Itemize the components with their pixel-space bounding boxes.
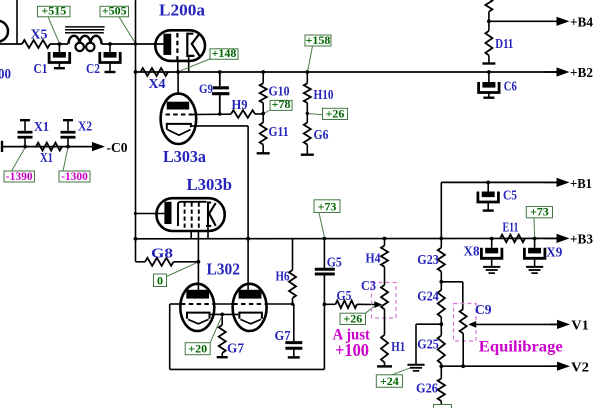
label H10 — [314, 87, 334, 102]
svg-text:H4: H4 — [366, 251, 381, 266]
label +100 — [335, 340, 369, 360]
terminal G11 bottom — [257, 152, 270, 154]
voltage label +73 right — [526, 205, 552, 237]
label X9 — [546, 245, 562, 260]
wire L303a cathode to right column — [191, 126, 248, 239]
svg-text:X5: X5 — [31, 27, 48, 42]
node C5 top — [486, 181, 490, 185]
wire to L302 left anode — [197, 262, 199, 290]
label L200a — [159, 1, 206, 20]
label L302 — [207, 260, 241, 279]
wire resistor to B4 node — [488, 12, 490, 22]
label X2 cap — [78, 119, 92, 134]
capacitor X2 — [61, 120, 76, 146]
wire L303b lead through to G8 node — [197, 231, 199, 262]
wire grid gap between tubes — [214, 303, 234, 305]
arrow output -C0 — [92, 142, 105, 151]
tube L302a grid (dashed) — [181, 303, 214, 305]
svg-text:+24: +24 — [380, 374, 399, 388]
node +26 junction — [306, 103, 309, 123]
wire H4 to C3 — [384, 267, 386, 285]
node G5 resistor junction — [323, 302, 327, 306]
tube L302a envelope — [180, 284, 214, 331]
svg-text:Equilibrage: Equilibrage — [479, 339, 563, 356]
wiper arrow into C3 — [357, 301, 382, 308]
node X8 top — [490, 237, 494, 241]
wire H6 to grid node — [292, 298, 294, 304]
tube L302b cathode — [239, 313, 262, 319]
svg-text:X2: X2 — [78, 119, 92, 134]
label G24 — [417, 289, 439, 304]
svg-text:H9: H9 — [232, 97, 248, 112]
voltage label 0 — [154, 263, 197, 288]
svg-text:G11: G11 — [269, 124, 289, 139]
label X8 — [464, 244, 480, 259]
resistor G25 — [438, 335, 445, 363]
tube L302a anode plate — [186, 290, 209, 299]
wire input to X5 at y=44 — [0, 43, 22, 45]
svg-text:+78: +78 — [272, 97, 291, 111]
tube L303b screen — [178, 202, 207, 226]
svg-text:G6: G6 — [314, 127, 329, 142]
svg-text:X8: X8 — [464, 244, 480, 259]
wire G8 to node — [174, 261, 199, 263]
tube L303b cathode plate — [164, 202, 171, 224]
arrow output V2 — [550, 362, 570, 371]
resistor G11 — [260, 123, 267, 145]
terminal input C0 line — [1, 141, 3, 152]
svg-text:G5: G5 — [327, 255, 342, 270]
label L300 partial — [0, 67, 11, 83]
node +515 junction — [58, 42, 62, 46]
svg-text:+B2: +B2 — [570, 66, 593, 81]
label G6 — [314, 127, 329, 142]
wire B3 rail — [136, 237, 558, 239]
ground below X8 — [483, 267, 500, 273]
wire C9 feed — [441, 282, 463, 309]
svg-text:C1: C1 — [34, 61, 48, 76]
resistor E11 — [500, 235, 525, 243]
svg-text:G7: G7 — [227, 341, 244, 356]
svg-text:+B4: +B4 — [570, 16, 593, 31]
wire C3 to H1 — [384, 309, 386, 335]
label G9 — [199, 81, 213, 96]
wire L200a to L303a anode — [177, 72, 179, 95]
terminal H1 bottom — [377, 365, 392, 367]
svg-text:L302: L302 — [207, 260, 241, 279]
resistor G8 — [145, 258, 174, 266]
svg-text:H10: H10 — [314, 87, 334, 102]
svg-text:G5: G5 — [337, 288, 352, 303]
node V2 junction — [439, 364, 443, 368]
capacitor C1 — [49, 44, 70, 68]
resistor H4 — [381, 239, 388, 267]
capacitor C2 — [100, 44, 120, 72]
label C9 — [475, 302, 492, 317]
svg-text:C3: C3 — [361, 278, 376, 293]
node B3 riser junction — [439, 237, 443, 241]
wire G23 to G24 — [440, 272, 442, 291]
tube L303a filament — [168, 130, 191, 136]
inductor core lines — [65, 27, 105, 33]
label V2 — [571, 361, 589, 376]
voltage label +26 — [309, 106, 348, 120]
node +158 junction — [305, 70, 309, 74]
resistor G7 — [219, 314, 226, 353]
label D11 — [495, 36, 513, 51]
node +505 junction — [108, 42, 137, 46]
resistor H1 — [381, 335, 388, 363]
wire cathode link — [210, 313, 240, 315]
label H4 — [366, 251, 381, 266]
svg-text:C5: C5 — [503, 188, 517, 203]
wire H1 to terminal — [384, 362, 386, 366]
tube L303b anode — [206, 203, 216, 226]
voltage label +73 left — [314, 199, 340, 236]
resistor top right (partial) — [485, 0, 492, 12]
wire L303a grid to H9 — [193, 113, 231, 115]
node B4 — [487, 19, 491, 23]
wire G8 corner — [136, 261, 146, 263]
svg-text:-1390: -1390 — [6, 171, 33, 183]
capacitor G5 — [315, 239, 335, 305]
svg-text:H6: H6 — [276, 269, 290, 284]
resistor H9 — [231, 110, 255, 118]
wire L303b lead to B3 rail a — [190, 231, 192, 239]
resistor G10 — [260, 72, 267, 103]
wire G7 to terminal — [221, 353, 223, 357]
label +B3 — [570, 233, 593, 248]
node X4 left — [134, 70, 138, 74]
svg-text:+515: +515 — [41, 4, 66, 18]
label Equilibrage — [479, 339, 563, 356]
voltage label +148 — [181, 46, 239, 71]
node C9 feed junction — [439, 280, 443, 284]
voltage label +26 adjust — [340, 306, 375, 326]
svg-text:+505: +505 — [102, 4, 127, 18]
label H6 — [276, 269, 290, 284]
tube L302a filament — [188, 319, 209, 323]
node grid H6 junction — [291, 302, 294, 305]
svg-text:+148: +148 — [212, 46, 237, 60]
wire L200a anode lead down — [188, 56, 190, 72]
tube L303b envelope — [157, 198, 225, 231]
voltage label +515 — [38, 4, 71, 43]
node +78 junction — [261, 103, 265, 123]
node X1 — [23, 145, 27, 149]
svg-text:G26: G26 — [416, 381, 438, 396]
wire D11 to terminal — [488, 55, 490, 63]
wire C0 rail — [2, 146, 93, 148]
ground below X9 — [526, 267, 543, 273]
capacitor C5 — [478, 182, 499, 210]
resistor H10 — [304, 72, 311, 103]
wire vertical bus x=135.5 from top edge to G8 corner — [135, 0, 137, 262]
svg-text:X4: X4 — [149, 76, 166, 91]
svg-text:00: 00 — [0, 67, 11, 83]
node G9 bottom — [218, 112, 221, 115]
label V1 — [571, 319, 589, 334]
arrow output +B2 — [545, 67, 570, 76]
capacitor X1 — [18, 120, 33, 146]
resistor G24 — [438, 290, 445, 317]
svg-text:+26: +26 — [343, 311, 362, 325]
voltage label +505 — [100, 4, 135, 43]
arrow output +B3 — [545, 234, 570, 243]
svg-text:+B3: +B3 — [570, 233, 593, 248]
svg-text:X1: X1 — [40, 150, 53, 165]
svg-text:V2: V2 — [571, 361, 589, 376]
terminal D11 bottom — [482, 62, 495, 64]
wire grid node down to G7 cap — [293, 304, 295, 341]
voltage label bottom (partial) — [434, 405, 452, 411]
resistor X4 — [141, 68, 168, 76]
label X1 cap — [34, 119, 49, 134]
node C9 V2 junction — [461, 364, 465, 368]
label G26 — [416, 381, 438, 396]
label L303b — [187, 175, 233, 194]
tube L200a anode — [187, 34, 199, 56]
svg-text:+73: +73 — [318, 199, 337, 213]
terminal G6 bottom — [301, 153, 314, 155]
node G10 top — [261, 70, 265, 74]
label X5 — [31, 27, 48, 42]
svg-text:+100: +100 — [335, 340, 369, 360]
svg-text:G8: G8 — [151, 246, 173, 261]
inductor L1 coil — [69, 36, 102, 51]
dashed box C3 — [372, 283, 397, 319]
label L303a — [163, 147, 206, 166]
label X4 — [149, 76, 166, 91]
label E11 — [503, 220, 519, 235]
label G8 — [151, 246, 173, 261]
svg-text:C2: C2 — [86, 61, 100, 76]
svg-text:L303b: L303b — [187, 175, 233, 194]
tube L303a cathode — [167, 124, 191, 130]
tube L302b grid (dashed) — [233, 303, 266, 305]
node X9 top / +73 junction — [533, 237, 537, 241]
label G7 cap — [275, 328, 291, 343]
resistor G26 — [438, 379, 445, 402]
node G9 top — [218, 70, 222, 74]
svg-text:L303a: L303a — [163, 147, 206, 166]
svg-text:G23: G23 — [417, 252, 439, 267]
label G5 res — [337, 288, 352, 303]
label C1 — [34, 61, 48, 76]
resistor G6 — [304, 123, 311, 145]
dashed box C9 — [454, 304, 477, 342]
wire ground tap — [416, 324, 441, 364]
svg-text:G24: G24 — [417, 289, 439, 304]
node cathode G7 — [220, 313, 224, 317]
resistor G23 — [438, 248, 445, 272]
wiper arrow from C9 — [468, 321, 557, 328]
label C2 — [86, 61, 100, 76]
wire loop bottom — [170, 368, 325, 370]
tube L200a cathode plate — [163, 34, 171, 55]
label C5 — [503, 188, 517, 203]
terminal G7 cap bottom — [288, 356, 300, 358]
wire loop right vertical to G5 node — [323, 304, 325, 369]
svg-text:D11: D11 — [495, 36, 513, 51]
tube L200a grid (dashed) — [176, 33, 178, 62]
wire C9 bottom — [462, 334, 464, 367]
node G8 / 0V — [197, 260, 201, 264]
voltage label +20 — [185, 318, 221, 356]
wire to L302 right anode — [247, 239, 249, 290]
resistor G5 — [324, 301, 357, 309]
tube L303a anode plate — [167, 102, 190, 110]
label +B1 — [570, 177, 592, 192]
svg-text:E11: E11 — [503, 220, 519, 235]
node B3 left junction — [134, 237, 138, 241]
voltage label +24 — [376, 367, 413, 388]
svg-text:+158: +158 — [306, 33, 331, 47]
capacitor X8 — [481, 239, 502, 267]
capacitor G7 — [285, 343, 302, 358]
label +B4 — [570, 16, 593, 31]
wire G24 to G25 — [440, 317, 442, 335]
resistor X1 — [36, 143, 62, 151]
label G25 — [417, 337, 439, 352]
resistor D11 — [485, 21, 492, 55]
svg-text:G9: G9 — [199, 81, 213, 96]
label G5 cap — [327, 255, 342, 270]
wire V2 rail — [441, 365, 557, 367]
node anode junction +148 — [176, 70, 180, 74]
node C6 top — [487, 70, 491, 74]
wire grid loop left — [170, 303, 181, 305]
tube L303a grid (dashed) — [166, 114, 194, 116]
label H9 — [232, 97, 248, 112]
arrow output +B1 — [545, 178, 570, 187]
wire L200a grid lead down — [177, 62, 179, 73]
voltage label -1390 — [4, 149, 35, 183]
label G23 — [417, 252, 439, 267]
tube L302a cathode — [187, 313, 210, 319]
tube L300 (partial, clipped at left edge) — [0, 21, 8, 42]
svg-text:H1: H1 — [391, 339, 405, 354]
node cathode rail junction — [246, 237, 250, 241]
wire L303b anode lead to B3 rail — [207, 226, 209, 239]
tube L302b envelope — [233, 284, 267, 331]
node ground tap junction — [439, 322, 443, 326]
label C6 — [504, 79, 517, 94]
svg-text:-1300: -1300 — [61, 171, 88, 183]
label +B2 — [570, 66, 593, 81]
svg-text:V1: V1 — [571, 319, 589, 334]
vertical wire from top edge to input wire — [16, 0, 18, 44]
terminal G7 bottom — [217, 356, 228, 358]
tube L200a envelope — [155, 30, 205, 61]
label -C0 — [107, 140, 128, 155]
resistor H6 — [289, 239, 296, 298]
resistor X5 — [22, 40, 50, 48]
svg-text:+73: +73 — [530, 205, 549, 219]
svg-text:C6: C6 — [504, 79, 517, 94]
wire X5 to inductor — [50, 43, 68, 45]
svg-text:0: 0 — [157, 273, 163, 287]
node G5 top — [323, 237, 327, 241]
voltage label -1300 — [59, 149, 90, 183]
tube L302b anode plate — [239, 290, 262, 299]
svg-text:L200a: L200a — [159, 1, 206, 20]
svg-text:X1: X1 — [34, 119, 49, 134]
wire B2 rail y=72 — [136, 71, 558, 73]
ground symbol +24 point — [407, 365, 424, 371]
wire loop left vertical — [169, 304, 171, 369]
label G11 — [269, 124, 289, 139]
svg-text:X9: X9 — [546, 245, 562, 260]
wire G25 to V2 node — [440, 364, 442, 379]
label Ajust — [333, 327, 371, 344]
svg-text:+26: +26 — [326, 106, 345, 120]
wire H9 to G10 column — [255, 113, 263, 115]
potentiometer C3 — [381, 285, 388, 309]
label X1 res — [40, 150, 53, 165]
svg-text:+B1: +B1 — [570, 177, 592, 192]
arrow output +B4 — [489, 17, 570, 26]
label H1 — [391, 339, 405, 354]
potentiometer C9 — [460, 309, 467, 334]
wire B1 rail — [441, 181, 557, 183]
label G7 — [227, 341, 244, 356]
tube L303a envelope — [161, 94, 197, 144]
tube L303b grids (dashed) — [185, 203, 199, 231]
wire inductor to tube L200a — [102, 43, 164, 45]
arrow output V1 — [550, 320, 570, 329]
node H4 top — [383, 237, 387, 241]
voltage label +78 — [265, 97, 292, 113]
svg-text:C9: C9 — [475, 302, 492, 317]
capacitor X9 — [524, 239, 545, 267]
wire B1 riser — [440, 182, 442, 247]
capacitor G9 — [212, 72, 229, 114]
label C3 — [361, 278, 376, 293]
svg-text:G7: G7 — [275, 328, 291, 343]
label G10 — [269, 84, 290, 99]
capacitor C6 — [479, 72, 500, 98]
voltage label +158 — [305, 33, 331, 71]
svg-text:G25: G25 — [417, 337, 439, 352]
wire G26 bottom — [440, 401, 442, 405]
wire G6 to terminal — [306, 145, 308, 155]
wire grid to H6 column — [266, 303, 292, 305]
wire G11 to terminal — [262, 145, 264, 154]
wire L303b grid lead from bus — [134, 212, 165, 215]
tube L302b filament — [240, 319, 261, 323]
svg-text:+20: +20 — [188, 342, 207, 356]
svg-text:-C0: -C0 — [107, 140, 128, 155]
node X2 — [66, 145, 70, 149]
